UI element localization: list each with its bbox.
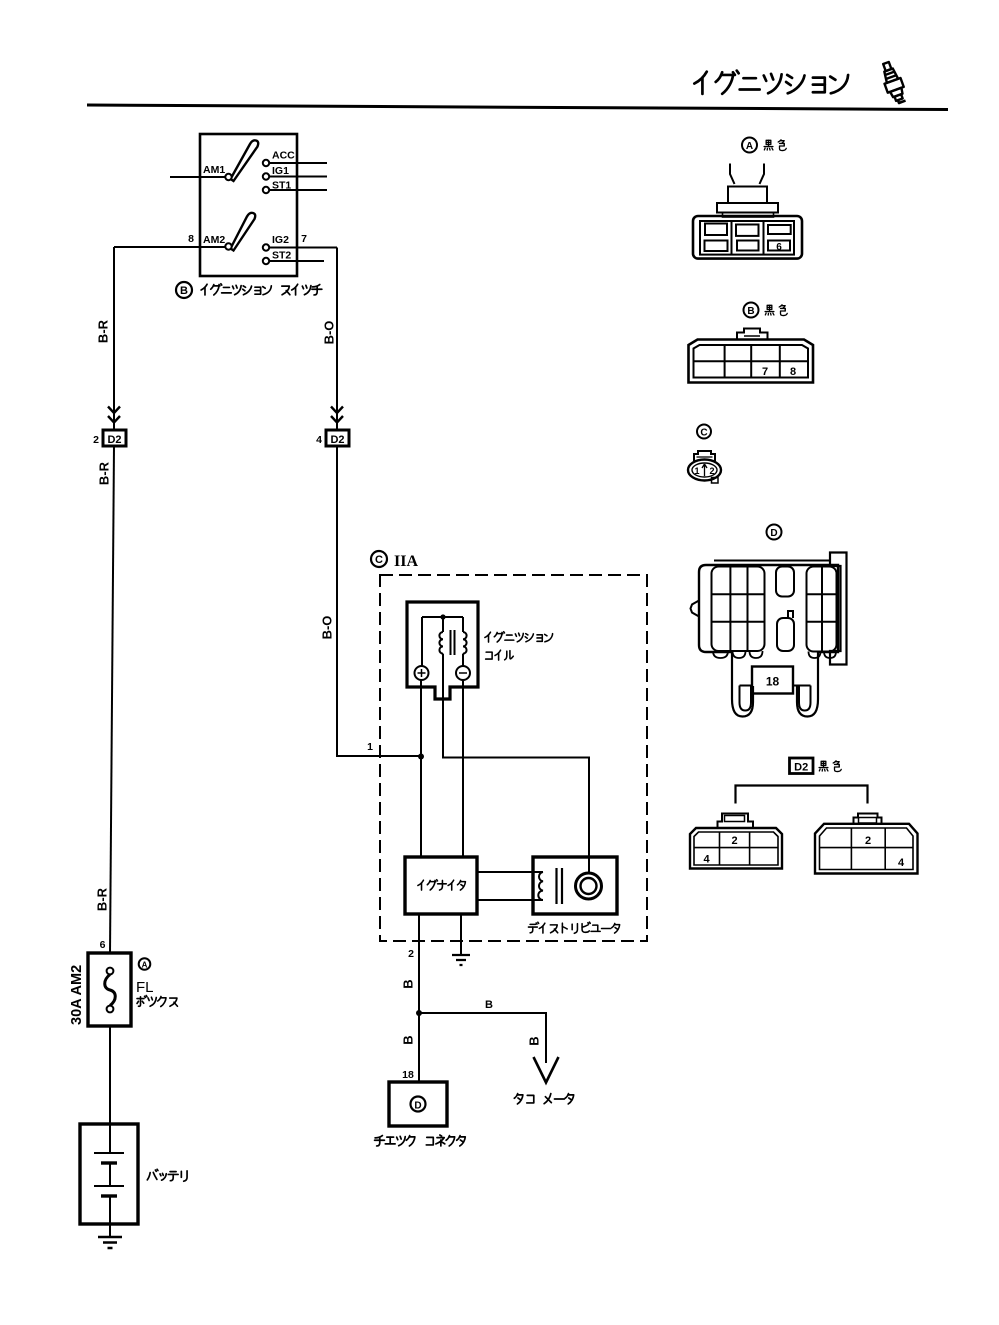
svg-text:AM1: AM1 <box>203 164 225 176</box>
coil top junction dot <box>440 614 445 619</box>
coil secondary winding <box>463 632 467 654</box>
svg-text:D2: D2 <box>107 434 121 446</box>
svg-text:B-R: B-R <box>96 319 111 343</box>
contact AM1 <box>225 174 231 180</box>
contact AM2 <box>225 243 231 249</box>
label チエツク コネクタ (check connector) <box>375 1135 466 1146</box>
D2 right connector body <box>815 824 918 874</box>
coil primary winding <box>439 632 443 654</box>
wires igniter to distributor <box>477 871 543 873</box>
label 黒色 (black) B <box>765 305 787 316</box>
svg-text:7: 7 <box>762 366 768 378</box>
connector A cavities <box>705 224 727 236</box>
svg-text:2: 2 <box>93 434 99 446</box>
svg-text:18: 18 <box>766 675 780 689</box>
junction dot tacho branch <box>416 1010 422 1016</box>
ground symbol igniter <box>452 955 470 965</box>
svg-text:D: D <box>770 528 777 539</box>
fuse element <box>107 968 114 975</box>
label circle C <box>371 551 387 567</box>
svg-text:B: B <box>180 285 188 297</box>
igniter output wire 2 <box>418 914 420 1082</box>
contact ST1 <box>263 187 269 193</box>
label コイル line2 <box>486 650 514 660</box>
svg-text:B: B <box>401 979 416 988</box>
svg-text:ST2: ST2 <box>272 250 291 262</box>
connector D legs <box>732 652 753 717</box>
check connector box <box>389 1082 447 1126</box>
svg-text:8: 8 <box>188 233 194 245</box>
svg-text:C: C <box>700 428 707 439</box>
wire battery to ground <box>109 1196 111 1237</box>
D2 bracket <box>736 786 868 804</box>
wire to tachometer <box>419 1013 546 1063</box>
coil + lead down to igniter <box>420 680 422 857</box>
coil + terminal <box>415 666 429 680</box>
svg-text:2: 2 <box>709 466 714 476</box>
wire FL to battery <box>109 1026 111 1153</box>
svg-text:B: B <box>747 306 754 317</box>
svg-text:B-O: B-O <box>320 616 335 640</box>
svg-text:D: D <box>414 1101 421 1112</box>
label イグニツション スイツチ (ignition switch) <box>201 284 322 295</box>
distributor core <box>555 868 557 904</box>
title イグニッション (Ignition) <box>694 71 848 94</box>
svg-text:B: B <box>485 999 493 1011</box>
wire from ST2 <box>269 260 324 262</box>
label タコ メータ (tacho meter) <box>514 1094 573 1104</box>
coil top wire <box>422 616 463 618</box>
svg-text:8: 8 <box>790 366 796 378</box>
wire AM2 to left wire <box>114 246 226 248</box>
svg-text:4: 4 <box>316 434 322 446</box>
connector D right cavity group <box>807 567 837 652</box>
arrow into connector D2 left <box>108 407 120 423</box>
battery box <box>80 1124 138 1224</box>
svg-text:2: 2 <box>865 835 871 847</box>
svg-text:4: 4 <box>703 854 710 866</box>
connector A body <box>693 216 802 259</box>
connector D left bump <box>691 601 700 617</box>
ground symbol battery <box>98 1237 122 1248</box>
svg-text:1: 1 <box>367 741 373 753</box>
connector D center slots <box>776 567 794 597</box>
label circle D <box>411 1097 426 1112</box>
wire B-O from IG2 down <box>336 248 338 431</box>
connector B label <box>744 303 759 318</box>
wire B-R from D2 to FL box <box>110 446 114 953</box>
D2 left connector body <box>690 828 782 869</box>
connector A flange <box>717 203 778 213</box>
coil core <box>450 630 452 655</box>
label circle B <box>176 282 192 298</box>
connector C body <box>694 451 715 461</box>
contact ACC <box>263 160 269 166</box>
svg-text:1: 1 <box>694 466 699 476</box>
distributor assembly IIA dashed box <box>380 575 647 941</box>
connector A upper block <box>728 187 767 204</box>
igniter ground wire <box>460 914 462 955</box>
D2 right connector tab <box>854 814 882 824</box>
arrow to tachometer <box>534 1057 559 1083</box>
label イグニツション コイル line1 <box>485 632 553 642</box>
connector D cavity scallops <box>713 651 728 658</box>
svg-text:ACC: ACC <box>272 150 295 162</box>
wire B-R from AM2 down <box>113 247 115 430</box>
svg-text:B: B <box>401 1035 416 1044</box>
coil + lead <box>421 617 423 666</box>
connector junction 4 D2 <box>326 430 349 446</box>
ignition switch B box <box>200 134 297 276</box>
svg-text:30A AM2: 30A AM2 <box>69 965 85 1025</box>
svg-text:C: C <box>375 554 383 566</box>
svg-text:6: 6 <box>100 939 106 951</box>
connector D right bracket <box>830 553 847 665</box>
distributor rotor circles <box>576 873 602 899</box>
label イグナイタ (igniter) <box>418 880 465 890</box>
svg-text:IIA: IIA <box>394 553 418 570</box>
svg-text:B-R: B-R <box>97 461 112 485</box>
connector D label <box>767 525 782 540</box>
svg-text:D2: D2 <box>794 762 808 774</box>
label ボツクス (box) <box>137 996 177 1007</box>
connector D2 label box <box>790 758 814 774</box>
arrow into connector D2 right <box>331 407 343 423</box>
contact IG2 <box>263 244 269 250</box>
igniter box <box>405 857 477 914</box>
svg-text:B: B <box>527 1036 542 1045</box>
svg-text:B-R: B-R <box>95 887 110 911</box>
label デイストリビユータ (distributor) <box>528 922 619 933</box>
battery plates <box>94 1152 124 1154</box>
svg-text:18: 18 <box>402 1069 414 1081</box>
title underline rule <box>87 105 948 110</box>
distributor pickup winding <box>538 872 543 900</box>
wire to AM1 <box>170 176 226 178</box>
label バッテリ (battery) <box>147 1169 187 1181</box>
connector C label <box>697 425 711 439</box>
svg-text:AM2: AM2 <box>203 234 225 246</box>
wire B-O from D2 down to node 1 <box>337 446 420 756</box>
coil secondary top lead <box>462 617 464 632</box>
spark plug icon <box>878 60 908 105</box>
connector B top tab <box>737 329 768 341</box>
label circle A <box>139 958 151 970</box>
ignition coil box <box>407 602 478 699</box>
svg-text:D2: D2 <box>330 434 344 446</box>
connector D body <box>714 560 830 562</box>
svg-text:2: 2 <box>731 835 737 847</box>
connector A label <box>742 138 757 153</box>
node 1 junction dot <box>418 754 424 760</box>
coil secondary bottom lead <box>462 654 464 666</box>
wire from ACC <box>269 162 327 164</box>
svg-text:4: 4 <box>898 857 905 869</box>
wire from ST1 <box>269 189 327 191</box>
contact ST2 <box>263 258 269 264</box>
connector D left cavity group <box>712 567 765 652</box>
contact IG1 <box>263 173 269 179</box>
svg-text:2: 2 <box>408 948 414 960</box>
svg-text:A: A <box>746 141 753 152</box>
svg-text:6: 6 <box>776 242 782 253</box>
wire IG2 to right wire <box>269 247 337 249</box>
D2 left connector tab <box>718 814 754 828</box>
coil primary lead to distributor (node wire) <box>443 654 589 873</box>
coil - lead down to igniter <box>462 680 464 857</box>
svg-text:IG2: IG2 <box>272 234 289 246</box>
label 黒色 (black) <box>764 140 786 151</box>
fusible link FL box <box>88 953 131 1026</box>
svg-text:7: 7 <box>301 233 307 245</box>
connector B body <box>689 340 814 383</box>
distributor box <box>533 857 617 914</box>
connector D pin 18 box <box>752 667 793 694</box>
coil - terminal <box>456 666 470 680</box>
connector A wire stubs <box>730 164 764 185</box>
connector junction 2 D2 <box>103 430 126 446</box>
switch lever AM1 <box>231 140 259 181</box>
switch lever AM2 <box>231 213 256 251</box>
svg-text:A: A <box>142 961 148 970</box>
coil primary top lead <box>442 617 444 632</box>
svg-text:IG1: IG1 <box>272 165 289 177</box>
label 黒色 (black) D2 <box>819 761 841 772</box>
svg-text:FL: FL <box>136 979 154 996</box>
svg-text:B-O: B-O <box>322 321 337 345</box>
wire from IG1 <box>269 176 327 178</box>
